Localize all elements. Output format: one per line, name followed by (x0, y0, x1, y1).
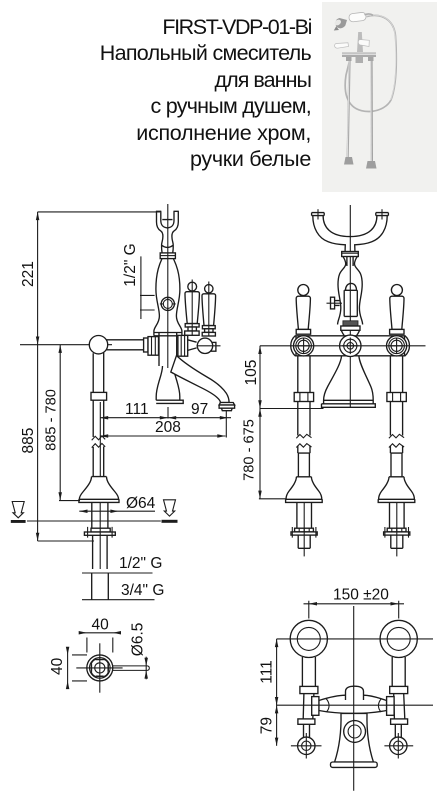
right ball (390, 737, 407, 754)
base disc center (341, 326, 360, 330)
fork collar (342, 252, 359, 257)
outer circle (87, 655, 113, 681)
leg lower centerline (99, 502, 101, 569)
svg-text:79: 79 (259, 717, 276, 734)
leg pipe upper (93, 353, 104, 393)
right ball centerlines (384, 733, 413, 759)
right leg nut2 (391, 719, 408, 724)
svg-text:150 ±20: 150 ±20 (333, 587, 389, 604)
body vase (154, 259, 182, 336)
pipe below bell (92, 502, 108, 528)
dimension line 208 (100, 435, 226, 437)
arm sleeve (144, 338, 148, 352)
arm left pipe (106, 340, 148, 350)
svg-text:1/2" G: 1/2" G (122, 243, 139, 286)
knob centerline (327, 302, 343, 304)
body spindle (319, 695, 387, 713)
left ball (298, 737, 315, 754)
dimension line 111-97 (100, 417, 231, 419)
handle front base bands (185, 324, 199, 327)
body unions (346, 57, 352, 61)
bell under column (156, 366, 183, 403)
handle left body (296, 296, 310, 329)
RIGHT VIEW (front view) (242, 205, 426, 556)
right leg circle (387, 336, 407, 356)
extension 105 bottom (260, 408, 324, 410)
right leg bell (378, 477, 415, 503)
axis through body (277, 704, 433, 706)
left leg pipe mid (298, 402, 310, 436)
left ball centerlines (291, 733, 322, 759)
body arms (296, 336, 405, 356)
handshower head (335, 18, 347, 28)
svg-text:97: 97 (191, 401, 208, 418)
leg break symbol (92, 436, 106, 448)
column neck to union (341, 330, 359, 335)
prong tick right (381, 209, 383, 219)
svg-text:1/2" G: 1/2" G (119, 555, 162, 572)
handle right body (390, 296, 404, 329)
BOTTOM RIGHT VIEW (top view) (259, 587, 434, 791)
handle rear body (202, 294, 216, 326)
leg pipe mid (93, 400, 104, 437)
second circle (90, 658, 111, 679)
extension line spout tip (225, 411, 227, 438)
right leg pipe lower (390, 446, 402, 477)
dim 40 top line (80, 632, 121, 634)
body center boss (346, 686, 364, 700)
center circle (340, 335, 361, 356)
left leg upper (302, 657, 315, 686)
pipe shank 3/4 (92, 573, 109, 600)
right union outer arc (405, 336, 410, 357)
svg-text:885 - 780: 885 - 780 (44, 389, 60, 451)
spout (171, 356, 229, 403)
left leg nut (300, 686, 318, 693)
floor flange plates (91, 528, 110, 532)
handle front ball (188, 282, 197, 291)
floor line (27, 520, 161, 522)
ball joint left leg (89, 336, 107, 354)
thread band (343, 321, 358, 326)
center bell (322, 356, 376, 407)
dim 40 left extension lines (72, 655, 87, 681)
handle left ball (298, 285, 309, 296)
crosshair vertical (99, 643, 101, 692)
dimension line 105 / 780-675 (259, 346, 261, 499)
left leg lower (303, 694, 314, 719)
right leg (370, 56, 373, 164)
dimension O64 (79, 510, 155, 512)
handle rear base bands (202, 326, 215, 329)
spout circle (344, 721, 366, 743)
svg-text:105: 105 (243, 360, 260, 386)
left leg nut2 (298, 719, 315, 724)
svg-text:111: 111 (259, 660, 276, 684)
svg-text:40: 40 (49, 657, 66, 675)
left leg pipe upper (298, 356, 310, 393)
1/2G leader line (140, 256, 155, 319)
spout trapezoid (335, 713, 374, 762)
diverter hub inner circle (163, 299, 172, 308)
prong tick left (317, 209, 319, 219)
centerline vertical (349, 205, 351, 408)
ground bar left (11, 520, 26, 523)
hose loop (345, 15, 396, 111)
left leg stem (304, 724, 310, 737)
spout outlet opening (222, 408, 233, 411)
leg bell foot (79, 477, 119, 503)
left leg bell (286, 477, 323, 503)
dimension line 221/885 (37, 212, 39, 541)
right leg pipe bottom (391, 535, 403, 548)
left leg pipe below bell (297, 502, 312, 528)
title block (100, 14, 311, 172)
right leg stem (395, 724, 401, 737)
handle front centerline (191, 280, 193, 337)
body bar (342, 53, 376, 58)
handle front body (185, 292, 199, 324)
crosshair horizontal (76, 667, 122, 669)
handle right base (390, 329, 404, 334)
body spindle shading (326, 699, 382, 713)
top extension line (38, 211, 160, 213)
left leg centerline (303, 502, 305, 556)
flange nut ticks (93, 528, 108, 531)
svg-text:885: 885 (20, 428, 37, 454)
dim O6.5 line (145, 657, 147, 680)
leader 3/4 G (82, 599, 155, 601)
ground bar right (162, 520, 178, 523)
rounded square nut (91, 659, 108, 676)
arm left nut (148, 337, 159, 356)
arm taper connector (188, 340, 197, 351)
axis line horizontal (260, 345, 426, 347)
leg centerline (99, 402, 101, 476)
svg-text:40: 40 (92, 617, 110, 634)
body column (159, 332, 177, 366)
spout outlet horn (219, 403, 235, 406)
shower cradle stem (357, 32, 363, 52)
dim line 111-79 (276, 639, 278, 746)
svg-text:3/4" G: 3/4" G (121, 582, 164, 599)
dim line 150 (304, 603, 405, 605)
fork side view (156, 211, 179, 253)
fork cradle (312, 213, 389, 252)
right leg break (389, 434, 404, 447)
axis extension line (20, 344, 112, 346)
hose nipple ball (197, 338, 212, 353)
dimension line 885-780 (59, 345, 61, 501)
dim 150 extension lines (309, 601, 399, 619)
handle left base (296, 329, 310, 334)
leg pipe lower (93, 446, 104, 476)
ground symbol right (164, 500, 176, 516)
dim 40 left line (67, 648, 69, 689)
right leg collar (387, 393, 406, 402)
left leg pipe lower (298, 446, 310, 477)
diverter hub outer circle (161, 297, 174, 310)
pin (113, 666, 150, 671)
extension 780-675 bottom (259, 498, 286, 500)
left union outer arc (291, 336, 296, 357)
leg collar nut (91, 392, 107, 400)
svg-text:780 - 675: 780 - 675 (242, 419, 258, 481)
left leg (348, 57, 350, 160)
left leg flange (295, 528, 314, 532)
svg-text:111: 111 (125, 401, 149, 418)
axis through circles (277, 638, 433, 640)
extension line spout center (167, 407, 169, 419)
left leg collar (294, 393, 313, 402)
dim 40 top extension lines (87, 638, 113, 653)
arm right nut (178, 335, 188, 356)
right wall circle (380, 620, 417, 657)
pipe below flange (93, 535, 108, 569)
photo background (322, 2, 437, 192)
fork collar (160, 253, 175, 259)
PHOTO of faucet top right (322, 2, 437, 192)
left white lever (335, 43, 349, 48)
body left cap (312, 697, 319, 716)
svg-text:Ø64: Ø64 (126, 495, 156, 512)
right leg pipe upper (390, 356, 402, 393)
right leg nut (390, 686, 408, 693)
right leg lower (394, 694, 405, 719)
svg-text:208: 208 (155, 419, 181, 436)
BOTTOM LEFT VIEW (plan of floor union) (49, 617, 149, 693)
left leg circle (294, 336, 314, 356)
body vase front (338, 257, 363, 325)
right leg centerline (396, 502, 398, 556)
right leg flange (387, 528, 406, 532)
right foot (366, 161, 377, 169)
body right cap (387, 697, 395, 716)
flange bolts (88, 527, 113, 538)
left foot (344, 157, 354, 165)
svg-text:221: 221 (20, 261, 37, 287)
nipple centerline (197, 345, 221, 347)
handshower white grip (349, 12, 367, 22)
right leg upper (392, 657, 405, 686)
vertical centerline (353, 606, 355, 791)
spout rim (331, 762, 378, 767)
handle right ball (391, 285, 402, 296)
cartridge sides (344, 290, 357, 316)
left leg pipe bottom (298, 535, 310, 548)
cartridge dome (346, 283, 357, 290)
handle rear ball (205, 285, 213, 293)
hose nipple stub (211, 342, 216, 351)
right white lever (358, 40, 369, 47)
svg-text:Ø6.5: Ø6.5 (130, 623, 147, 657)
LEFT VIEW (side view) (11, 204, 235, 600)
hub cross ticks (160, 298, 176, 311)
centerline body (167, 204, 169, 368)
handle rear centerline (208, 282, 210, 337)
cross ticks (92, 660, 108, 676)
leader 1/2 G (82, 572, 153, 574)
small circle (95, 663, 105, 673)
diverter knob (335, 301, 340, 306)
left wall circle (290, 620, 327, 657)
left leg break (296, 434, 311, 447)
spout outlet rim (219, 405, 235, 408)
shower to hose connector (365, 14, 374, 15)
right leg pipe below bell (390, 502, 405, 528)
ground symbol left (12, 502, 24, 518)
right leg pipe mid (390, 402, 402, 436)
